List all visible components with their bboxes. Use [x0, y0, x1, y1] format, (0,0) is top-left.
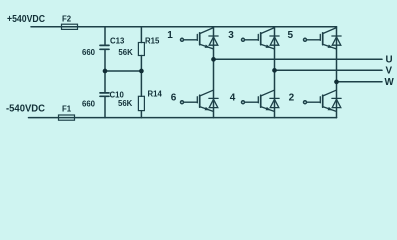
svg-text:56K: 56K — [118, 48, 133, 57]
transistor 5 (top, phase W) — [304, 28, 342, 49]
svg-text:U: U — [386, 55, 393, 66]
node W junction — [334, 80, 339, 85]
svg-text:F1: F1 — [62, 105, 72, 114]
wire resistor branch middle segment — [140, 56, 142, 97]
svg-text:1: 1 — [167, 30, 173, 41]
wire phase leg U vertical — [213, 27, 215, 118]
svg-text:5: 5 — [288, 30, 294, 41]
fuse F1 — [59, 115, 75, 120]
wire phase leg V vertical — [274, 27, 276, 118]
wire capacitor branch middle segment — [104, 50, 106, 93]
svg-text:-540VDC: -540VDC — [6, 104, 45, 115]
resistor R14 — [138, 96, 144, 110]
svg-text:3: 3 — [228, 30, 234, 41]
wire output U — [214, 58, 383, 60]
resistor R15 — [138, 43, 144, 56]
svg-text:660: 660 — [82, 100, 96, 109]
svg-text:W: W — [385, 77, 395, 88]
svg-text:660: 660 — [82, 48, 96, 57]
wire resistor branch upper segment — [140, 27, 142, 43]
node capacitor midpoint junction — [103, 69, 108, 74]
node resistor midpoint junction — [139, 69, 144, 74]
svg-text:2: 2 — [289, 92, 295, 103]
svg-text:R15: R15 — [145, 36, 160, 45]
node V junction — [272, 68, 277, 73]
svg-text:R14: R14 — [148, 90, 163, 99]
wire output V — [275, 69, 383, 71]
svg-text:+540VDC: +540VDC — [7, 14, 45, 25]
svg-text:C13: C13 — [110, 36, 125, 45]
svg-text:6: 6 — [171, 92, 177, 103]
wire resistor branch lower segment — [140, 111, 142, 118]
capacitor C13 — [100, 45, 109, 49]
svg-text:56K: 56K — [118, 99, 133, 108]
wire bottom negative rail — [29, 117, 337, 119]
wire capacitor branch upper segment — [104, 27, 106, 45]
wire phase leg W vertical — [336, 27, 338, 118]
transistor 4 (bottom, phase V) — [242, 90, 280, 111]
wire capacitor branch lower segment — [104, 97, 106, 118]
wire output W — [337, 81, 383, 83]
node U junction — [211, 57, 216, 62]
transistor 1 (top, phase U) — [181, 28, 219, 49]
svg-text:4: 4 — [230, 92, 236, 103]
capacitor C10 — [100, 93, 109, 96]
transistor 6 (bottom, phase U) — [181, 90, 219, 111]
wire top positive rail — [31, 26, 337, 28]
svg-text:V: V — [386, 66, 393, 77]
svg-text:C10: C10 — [110, 90, 125, 99]
wire middle link between capacitor and resistor midpoints — [105, 70, 141, 72]
transistor 3 (top, phase V) — [242, 28, 280, 49]
fuse F2 — [62, 24, 78, 29]
transistor 2 (bottom, phase W) — [304, 90, 342, 111]
svg-text:F2: F2 — [62, 15, 72, 24]
